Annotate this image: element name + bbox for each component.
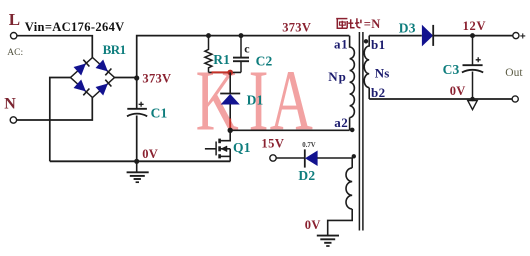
svg-text:a1: a1 (334, 36, 348, 51)
svg-text:AC:: AC: (7, 48, 23, 58)
svg-text:c: c (244, 41, 250, 55)
transistor Q1 MOSFET (205, 130, 230, 161)
wire red clamp segment (212, 71, 229, 73)
svg-text:0V: 0V (142, 147, 158, 161)
svg-text:D1: D1 (247, 93, 264, 108)
node aux phase dot (352, 154, 356, 158)
svg-text:373V: 373V (282, 21, 311, 35)
terminal out- (512, 96, 518, 102)
diode D1 (220, 72, 240, 130)
node b1 phase dot (364, 39, 368, 43)
wire D2 to aux winding (317, 158, 352, 168)
terminal N (10, 117, 16, 123)
wire R1-C2 bottom (209, 71, 242, 73)
diode D2 (305, 149, 318, 167)
transformer auxiliary winding (328, 168, 353, 235)
wire bridge positive to 373V node (114, 77, 136, 79)
svg-text:373V: 373V (142, 71, 171, 85)
wire L input top (17, 36, 92, 58)
transformer core (359, 32, 363, 231)
node C2 top junction dot (239, 33, 244, 38)
node D1 top junction dot red (227, 70, 233, 76)
bridge rectifier BR1 (71, 58, 115, 98)
svg-text:C2: C2 (256, 54, 273, 69)
svg-text:Q1: Q1 (233, 140, 251, 155)
wire drain to transformer a2 (230, 129, 349, 131)
svg-text:Ns: Ns (375, 66, 390, 81)
wire C1 branch (136, 78, 138, 162)
terminal L (11, 33, 17, 39)
ground earth aux (317, 236, 339, 246)
node 373V junction dot (134, 75, 139, 80)
wire 373V rail top (137, 36, 350, 78)
ground signal right (468, 101, 478, 110)
svg-text:=N: =N (364, 17, 381, 31)
wire N input (17, 97, 93, 120)
node C3 top junction dot (470, 33, 475, 38)
svg-text:Np: Np (328, 69, 347, 84)
svg-text:b2: b2 (371, 85, 386, 100)
svg-text:0V: 0V (305, 218, 321, 232)
terminal 15V (270, 155, 276, 161)
svg-text:C1: C1 (151, 106, 168, 121)
svg-text:D3: D3 (399, 20, 416, 35)
transformer primary winding Np (350, 36, 355, 131)
label turns ratio 匝比=N (336, 18, 361, 28)
svg-text:N: N (4, 96, 16, 113)
wire 0V rail (50, 160, 231, 162)
terminal out+ (513, 33, 519, 39)
wire D3 to out+ (433, 35, 513, 37)
svg-text:R1: R1 (213, 52, 230, 67)
wire 15V to D2 (276, 157, 304, 159)
node Q1 drain junction dot (228, 128, 233, 133)
node C3 bottom junction (470, 97, 475, 102)
svg-text:Out: Out (505, 67, 523, 79)
svg-text:L: L (9, 10, 20, 29)
svg-text:D2: D2 (298, 168, 315, 183)
svg-text:+: + (520, 33, 526, 44)
wire b2 to out- (369, 98, 512, 100)
resistor R1 (205, 36, 212, 73)
svg-text:b1: b1 (371, 37, 386, 52)
svg-text:BR1: BR1 (103, 42, 126, 57)
capacitor C1 (127, 102, 147, 117)
node C1 bottom junction dot (134, 159, 139, 164)
svg-text:a2: a2 (334, 115, 348, 130)
svg-text:0V: 0V (450, 84, 466, 98)
svg-text:15V: 15V (261, 137, 284, 151)
svg-text:Vin=AC176-264V: Vin=AC176-264V (25, 20, 125, 34)
svg-text:12V: 12V (463, 19, 487, 33)
capacitor C3 (462, 36, 483, 99)
node R1 top junction dot (206, 33, 211, 38)
wire bridge negative to 0V rail (50, 78, 71, 162)
svg-text:C3: C3 (443, 62, 460, 77)
diode D3 (422, 25, 433, 46)
wire b1 to D3 (369, 35, 422, 37)
node a2 phase dot (350, 128, 355, 133)
svg-text:0.7V: 0.7V (302, 142, 315, 149)
ground earth left (127, 161, 149, 182)
capacitor C2 (233, 36, 249, 73)
transformer secondary winding Ns (364, 36, 369, 99)
